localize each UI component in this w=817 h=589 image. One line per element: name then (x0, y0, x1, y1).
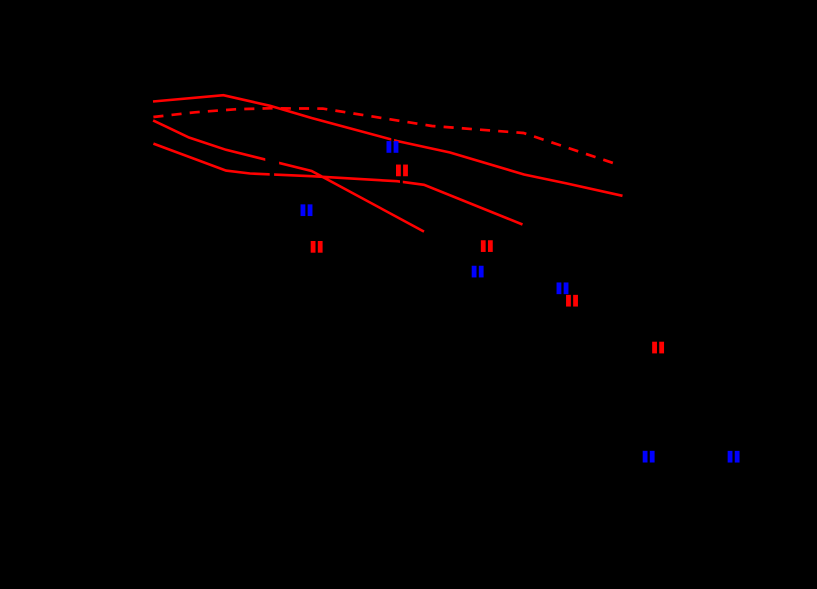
line series B (solid red, steep middle) (153, 120, 424, 231)
blue marker col4 (557, 282, 569, 294)
blue marker col2 (387, 141, 399, 153)
black stripe above blue marker col2 cutting line A (391, 135, 394, 141)
blue marker col1 (301, 204, 313, 216)
red marker col5 (652, 342, 664, 354)
line series A (top solid red) (153, 95, 623, 196)
hidden black stripe cutting line C near x=272 (270, 170, 274, 179)
red marker col1 (311, 241, 323, 253)
black stripe below red marker col2 cutting line C (400, 176, 403, 186)
hidden black marker cutting line B near x=272 (265, 153, 279, 168)
line series C (solid red, lower flat then drop) (153, 144, 522, 225)
blue marker col5 (643, 451, 655, 463)
red marker col3 (481, 240, 493, 252)
red marker col4 (566, 295, 578, 307)
blue marker col6 (728, 451, 740, 463)
blue marker col3 (472, 266, 484, 278)
line series D (dashed red) (153, 108, 615, 164)
red marker col2 (396, 165, 408, 177)
